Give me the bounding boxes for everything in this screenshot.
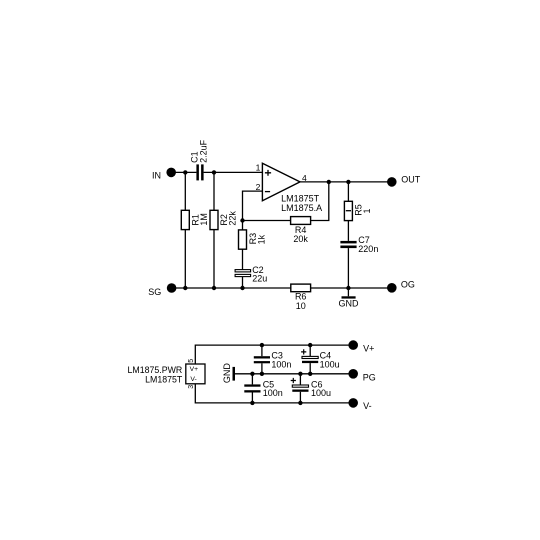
svg-text:IN: IN xyxy=(152,171,161,181)
junction V+ rail at C3 xyxy=(260,343,264,347)
junction output rail at R5 xyxy=(346,180,350,184)
junction V- rail at C5 xyxy=(250,401,254,405)
svg-text:4: 4 xyxy=(302,173,307,183)
junction IN node at R1 xyxy=(183,170,187,174)
capacitor C6 minus plate xyxy=(292,390,308,392)
resistor R5 body xyxy=(344,201,352,220)
junction output rail at feedback branch xyxy=(327,180,331,184)
junction SG rail at R1 xyxy=(183,286,187,290)
capacitor C4 polarity plus sign xyxy=(301,349,306,354)
resistor R6 body xyxy=(291,284,311,292)
wire PG rail from power ground symbol to PG terminal xyxy=(235,373,353,375)
wire C5 bottom plate to V- rail xyxy=(251,393,253,403)
junction SG rail at C2 xyxy=(240,286,244,290)
svg-text:2.2uF: 2.2uF xyxy=(199,139,209,163)
wire op-amp pin 2 to feedback node and R3 top xyxy=(243,191,263,230)
wire power pin 5 stub and V+ rail xyxy=(195,345,353,364)
wire C1 right plate to op-amp pin 1 xyxy=(204,171,263,173)
junction OG rail at C7/ground xyxy=(346,286,350,290)
svg-text:SG: SG xyxy=(148,287,161,297)
svg-text:1: 1 xyxy=(256,163,261,173)
terminal V- xyxy=(348,398,358,408)
main ground symbol bar xyxy=(342,296,356,298)
wire R1 bottom to SG rail xyxy=(184,230,186,288)
wire V+ rail to C4 top plate xyxy=(309,345,311,356)
resistor R2 body xyxy=(210,210,218,229)
svg-text:LM1875T: LM1875T xyxy=(145,374,183,384)
svg-text:V+: V+ xyxy=(363,344,374,354)
junction feedback node R3/R4 xyxy=(240,218,244,222)
wire node at x214 down to R2 top xyxy=(213,172,215,210)
wire node at x185 down to R1 top xyxy=(184,172,186,210)
wire V+ rail to C3 top plate xyxy=(261,345,263,356)
wire C2 bottom plate to SG rail xyxy=(242,277,244,288)
wire R3 bottom to C2 top plate xyxy=(242,249,244,269)
wire IN terminal to C1 left plate xyxy=(171,171,196,173)
svg-text:1M: 1M xyxy=(199,213,209,226)
svg-text:100n: 100n xyxy=(263,388,283,398)
wire feedback node to R4 left xyxy=(243,220,291,222)
svg-text:1: 1 xyxy=(362,208,372,213)
wire R4 right up to output rail xyxy=(311,182,329,221)
svg-text:PG: PG xyxy=(363,373,376,383)
capacitor C3 plates xyxy=(254,356,270,358)
capacitor C1 plates xyxy=(196,164,199,180)
wire R6 right to OG terminal xyxy=(311,287,392,289)
svg-text:2: 2 xyxy=(256,182,261,192)
svg-text:OG: OG xyxy=(401,279,415,289)
terminal IN xyxy=(166,168,176,178)
capacitor C4 plus plate xyxy=(302,356,318,358)
resistor R4 body xyxy=(291,217,311,225)
junction PG rail at C5 xyxy=(250,372,254,376)
svg-text:22k: 22k xyxy=(228,211,238,226)
capacitor C6 plus plate xyxy=(292,385,308,387)
terminal OUT xyxy=(387,177,397,187)
wire PG rail to C6 top plate xyxy=(299,374,301,385)
wire C6 bottom plate to V- rail xyxy=(299,392,301,403)
junction PG rail at C3 xyxy=(260,372,264,376)
wire C4 bottom plate to PG rail xyxy=(309,363,311,374)
capacitor C2 plates xyxy=(235,270,251,272)
svg-text:20k: 20k xyxy=(293,234,308,244)
svg-text:5: 5 xyxy=(188,359,195,363)
svg-text:V-: V- xyxy=(190,376,196,383)
wire C3 bottom plate to PG rail xyxy=(261,363,263,374)
svg-text:1k: 1k xyxy=(257,234,267,244)
terminal PG xyxy=(348,369,358,379)
wire op-amp output to OUT terminal xyxy=(300,181,392,183)
power block IC body xyxy=(186,364,205,384)
svg-text:GND: GND xyxy=(339,298,360,308)
capacitor C5 plates xyxy=(244,384,260,386)
resistor R1 body xyxy=(181,210,189,229)
power ground symbol bar xyxy=(233,367,236,381)
terminal SG xyxy=(167,283,177,293)
junction PG rail at C6 xyxy=(298,372,302,376)
svg-text:220n: 220n xyxy=(358,244,378,254)
junction V+ rail at C4 xyxy=(308,343,312,347)
junction SG rail at R2 xyxy=(212,286,216,290)
junction C1 output node at R2 xyxy=(212,170,216,174)
capacitor C4 minus plate xyxy=(302,361,318,363)
terminal OG xyxy=(387,283,397,293)
wire power pin 3 stub and V- rail xyxy=(195,384,353,403)
wire OG rail down to ground symbol xyxy=(347,288,349,296)
capacitor C7 plates xyxy=(340,241,356,244)
svg-text:OUT: OUT xyxy=(401,175,421,185)
wire SG terminal to R6 left xyxy=(172,287,291,289)
svg-text:3: 3 xyxy=(188,385,195,389)
wire R2 bottom to SG rail xyxy=(213,230,215,288)
svg-text:GND: GND xyxy=(222,363,232,384)
wire PG rail to C5 top plate xyxy=(251,374,253,385)
svg-text:100u: 100u xyxy=(311,388,331,398)
op-amp minus input marker xyxy=(265,191,270,193)
svg-text:22u: 22u xyxy=(252,274,267,284)
junction V- rail at C6 xyxy=(298,401,302,405)
svg-text:100u: 100u xyxy=(320,359,340,369)
junction PG rail at C4 xyxy=(308,372,312,376)
op-amp U1 body xyxy=(262,163,300,201)
terminal V+ xyxy=(348,340,358,350)
svg-text:V+: V+ xyxy=(190,366,199,373)
svg-text:V-: V- xyxy=(363,401,372,411)
svg-text:LM1875.A: LM1875.A xyxy=(281,203,322,213)
resistor R5 inner dash xyxy=(346,210,351,212)
capacitor C6 polarity plus sign xyxy=(291,378,296,383)
op-amp plus input marker xyxy=(265,170,271,176)
wire C7 bottom plate to OG rail xyxy=(347,248,349,288)
svg-text:10: 10 xyxy=(296,301,306,311)
resistor R3 body xyxy=(239,230,247,249)
wire R5 bottom to C7 top plate xyxy=(347,221,349,241)
wire output rail down to R5 top xyxy=(347,182,349,201)
svg-text:100n: 100n xyxy=(271,359,291,369)
